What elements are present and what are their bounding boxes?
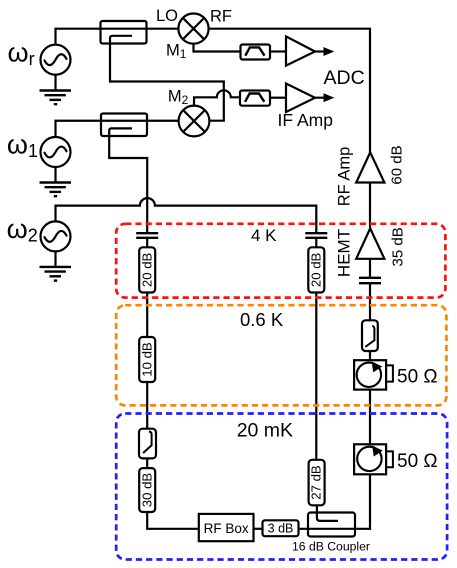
- svg-text:30 dB: 30 dB: [139, 473, 154, 508]
- svg-text:RF: RF: [210, 7, 232, 25]
- svg-text:20 dB: 20 dB: [139, 252, 154, 287]
- svg-text:20 dB: 20 dB: [308, 252, 323, 287]
- svg-text:50 Ω: 50 Ω: [397, 366, 438, 387]
- svg-text:0.6 K: 0.6 K: [240, 309, 284, 330]
- svg-text:4 K: 4 K: [251, 226, 277, 245]
- svg-text:RF Box: RF Box: [204, 521, 249, 536]
- svg-text:20 mK: 20 mK: [237, 419, 293, 441]
- svg-text:50 Ω: 50 Ω: [397, 451, 438, 472]
- svg-text:16 dB Coupler: 16 dB Coupler: [292, 539, 370, 553]
- svg-text:RF Amp: RF Amp: [336, 147, 354, 207]
- svg-text:10 dB: 10 dB: [139, 342, 154, 377]
- svg-text:LO: LO: [156, 7, 178, 25]
- svg-text:HEMT: HEMT: [335, 229, 354, 277]
- svg-text:IF Amp: IF Amp: [278, 110, 333, 130]
- svg-text:3 dB: 3 dB: [268, 522, 294, 536]
- svg-text:ADC: ADC: [324, 67, 365, 89]
- svg-text:35 dB: 35 dB: [389, 227, 406, 266]
- svg-text:60 dB: 60 dB: [388, 145, 405, 184]
- svg-text:27 dB: 27 dB: [309, 465, 324, 500]
